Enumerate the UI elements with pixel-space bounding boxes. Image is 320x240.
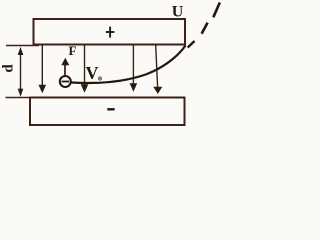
top plate P1: [34, 19, 186, 45]
d dimension top extension tick: [6, 45, 39, 47]
svg-text:F: F: [69, 43, 77, 58]
d dimension bottom extension tick: [6, 97, 35, 99]
minus sign on bottom plate: [107, 108, 114, 110]
trajectory continuation dash 1: [188, 41, 195, 48]
field arrow E2: [81, 46, 89, 93]
plus sign on top plate: [106, 27, 115, 38]
field arrow E1: [39, 46, 47, 94]
trajectory continuation dash 3: [213, 3, 220, 18]
paper background: [0, 0, 221, 133]
svg-text:o: o: [98, 74, 102, 83]
bottom plate P2: [30, 98, 185, 126]
minus inside electron: [62, 81, 70, 83]
svg-text:V: V: [86, 63, 99, 83]
force arrow F: [61, 58, 69, 75]
svg-text:U: U: [172, 4, 184, 21]
d dimension double arrow: [18, 47, 24, 97]
electron circle: [60, 76, 71, 87]
svg-text:d: d: [1, 64, 17, 73]
field arrow E3: [130, 46, 138, 92]
trajectory continuation dash 2: [202, 23, 208, 34]
field arrow E4 (slightly tilted): [153, 46, 162, 95]
trajectory curve (solid, inside plates): [71, 46, 186, 83]
